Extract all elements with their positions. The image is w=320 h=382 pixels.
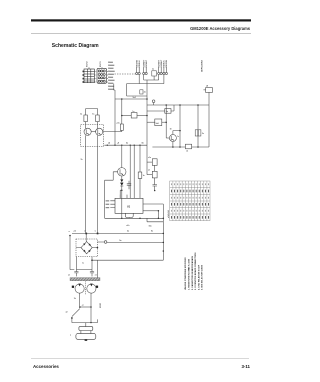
svg-text:15a: 15a [149, 226, 153, 228]
svg-text:2: 2 [84, 230, 85, 232]
svg-text:GEPS-39702: GEPS-39702 [202, 59, 204, 72]
svg-text:1b: 1b [74, 298, 76, 300]
svg-text:a1: a1 [68, 274, 70, 276]
svg-text:5a: 5a [126, 142, 129, 144]
svg-text:1. RESISTORS IN OHMS K=1000: 1. RESISTORS IN OHMS K=1000 [189, 258, 191, 290]
svg-text:B1701: B1701 [100, 61, 102, 67]
svg-text:2c: 2c [202, 133, 204, 135]
svg-text:a8: a8 [206, 86, 208, 88]
svg-text:Schematic Diagram: Schematic Diagram [52, 43, 99, 49]
svg-text:GN/WHT: GN/WHT [161, 59, 163, 68]
svg-text:5a0: 5a0 [133, 97, 136, 99]
svg-text:4. X NO RELATION IS 5UF: 4. X NO RELATION IS 5UF [197, 264, 200, 290]
svg-text:1a: 1a [143, 175, 145, 177]
svg-text:c1a: c1a [148, 157, 151, 159]
svg-text:a: a [70, 334, 72, 336]
svg-text:a: a [69, 231, 71, 233]
svg-text:a1: a1 [186, 151, 188, 153]
svg-text:+12: +12 [73, 231, 76, 233]
svg-text:5a: 5a [166, 111, 169, 113]
svg-text:+a: +a [82, 305, 84, 307]
svg-text:B1702: B1702 [87, 61, 89, 67]
svg-text:GM1200E Accessory Diagrams: GM1200E Accessory Diagrams [190, 26, 251, 31]
svg-text:1b: 1b [81, 159, 83, 161]
svg-text:2a: 2a [144, 92, 146, 94]
svg-text:BU/WHT: BU/WHT [146, 59, 148, 67]
svg-text:5a8: 5a8 [156, 123, 159, 125]
svg-text:2a: 2a [127, 231, 130, 233]
svg-text:Accessories: Accessories [33, 364, 59, 369]
svg-text:a1: a1 [148, 169, 150, 171]
svg-text:3. O DENOTES BOARD CONNECTORS: 3. O DENOTES BOARD CONNECTORS [194, 252, 197, 290]
svg-text:1c: 1c [82, 262, 84, 264]
svg-text:1c: 1c [177, 136, 179, 138]
svg-text:a7a: a7a [126, 225, 130, 227]
svg-text:5a: 5a [119, 240, 122, 242]
svg-text:1a: 1a [92, 114, 95, 116]
svg-text:3-11: 3-11 [241, 364, 250, 369]
svg-text:8a: 8a [151, 231, 153, 233]
svg-text:a4: a4 [108, 141, 110, 144]
svg-text:2. CAPACITORS IN MICROFARADS: 2. CAPACITORS IN MICROFARADS [191, 255, 194, 290]
svg-text:1a: 1a [80, 114, 83, 116]
svg-text:SPKR: SPKR [100, 302, 102, 308]
svg-text:BK/GRN: BK/GRN [166, 59, 168, 67]
svg-text:5. SEE SELECTOR GUIDE: 5. SEE SELECTOR GUIDE [202, 264, 204, 290]
svg-text:RD/BLK: RD/BLK [139, 60, 141, 68]
svg-text:U1: U1 [127, 205, 131, 208]
svg-text:a2: a2 [66, 312, 68, 314]
svg-text:10: 10 [170, 129, 172, 131]
svg-text:8a: 8a [142, 142, 145, 144]
svg-text:UNLESS OTHERWISE SPECIFIED: UNLESS OTHERWISE SPECIFIED [185, 257, 187, 290]
svg-text:b: b [95, 230, 96, 232]
svg-text:a2: a2 [153, 68, 155, 70]
svg-text:a1: a1 [95, 274, 97, 276]
svg-text:+8: +8 [117, 142, 119, 144]
svg-text:a1b2c3d4: a1b2c3d4 [167, 210, 170, 218]
svg-text:+1b: +1b [116, 123, 120, 125]
